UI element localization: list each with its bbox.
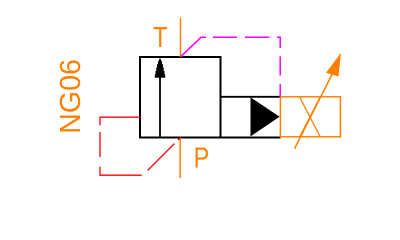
drain line diagonal dash 2 — [178, 138, 180, 140]
pilot line dash v1 — [279, 56, 281, 75]
pilot line corner dash — [277, 37, 280, 48]
wire: channel bottom line to solenoid — [221, 137, 281, 139]
drain line (red): top horizontal — [100, 117, 141, 125]
poppet triangle (check element) — [251, 97, 280, 136]
solenoid box — [280, 97, 340, 137]
pilot line dash h2 — [245, 36, 269, 38]
solenoid cross leg 1 — [300, 97, 320, 136]
drain line dash v2 + bottom horizontal — [100, 167, 142, 175]
pilot line (magenta): diagonal from box top — [181, 37, 206, 56]
pilot line dash v2 — [279, 84, 281, 97]
solenoid cross leg 2 — [300, 97, 320, 136]
flow arrow shaft inside valve body — [159, 62, 161, 138]
drain line dash v1 — [99, 132, 101, 157]
pilot line dash h1 — [213, 36, 237, 38]
adjustment arrow shaft — [295, 73, 333, 149]
adjustment arrow head — [326, 53, 341, 77]
drain line diagonal dash 1 — [148, 144, 175, 171]
svg-text:NG06: NG06 — [55, 59, 87, 134]
wire: channel top line to solenoid — [221, 96, 280, 98]
port T line — [180, 18, 182, 57]
svg-text:T: T — [153, 22, 168, 54]
flow arrow head (stepped) — [155, 58, 165, 78]
valve body box — [140, 57, 221, 138]
port P line — [179, 138, 181, 179]
svg-text:P: P — [194, 142, 210, 174]
